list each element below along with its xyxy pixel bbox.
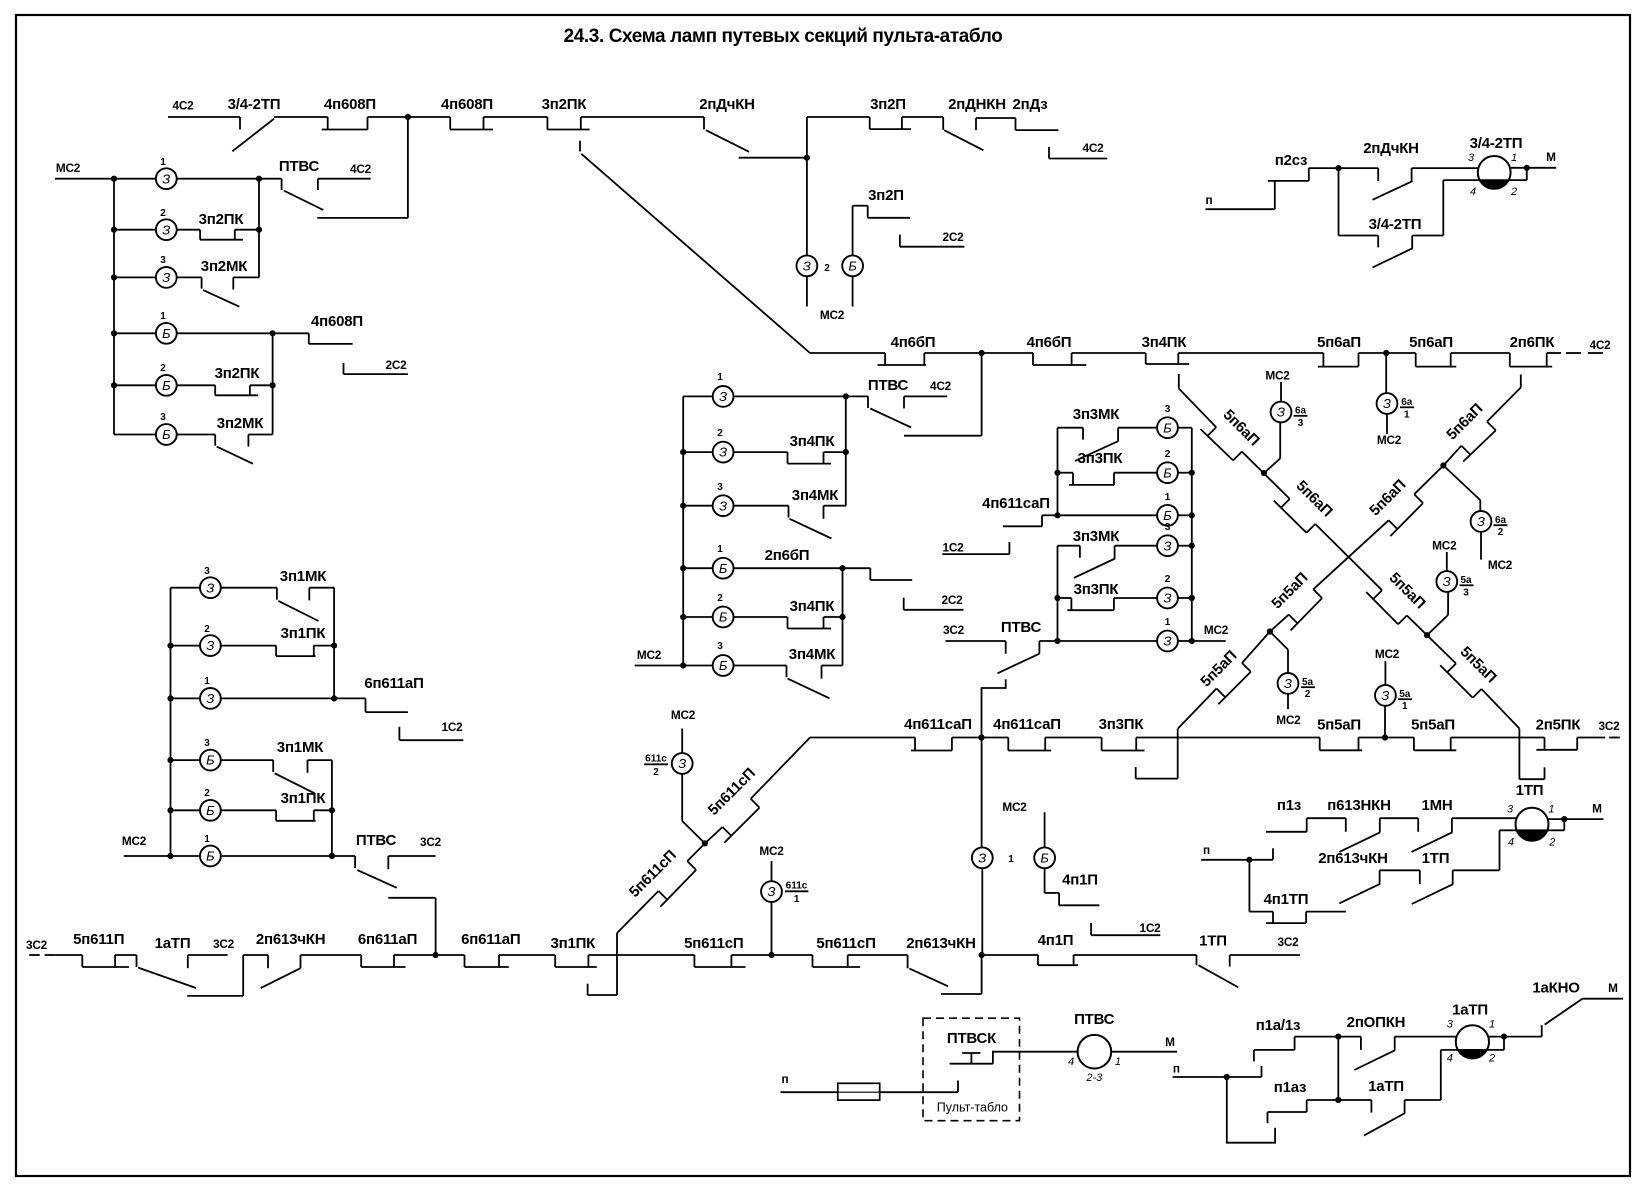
svg-text:3п3ПК: 3п3ПК — [1078, 450, 1124, 467]
node at 2пДчКН link — [804, 155, 810, 161]
svg-text:6а: 6а — [1401, 397, 1413, 408]
svg-text:ПТВС: ПТВС — [356, 832, 397, 849]
svg-text:Б: Б — [1040, 850, 1049, 865]
svg-text:МС2: МС2 — [1276, 713, 1301, 727]
node bottom rail 982 — [979, 952, 985, 958]
wire diagonal 5п611сП upper — [751, 738, 810, 799]
lamp 6а/2 with МС2 — [1443, 466, 1512, 573]
svg-text:п: п — [1173, 1062, 1180, 1076]
wire diag lower segs — [588, 843, 705, 995]
wire 1аТП lamp to 1аКНО — [1489, 1036, 1542, 1038]
wire 4п6бП rail left — [810, 352, 885, 354]
svg-text:З: З — [206, 638, 214, 653]
contact 4п611саП rail second (back) — [993, 716, 1101, 751]
lamp З1 3п3 — [1058, 617, 1192, 651]
svg-text:1C2: 1C2 — [942, 541, 964, 555]
contact 5п6аП rail second (back) — [1409, 334, 1510, 367]
wire п1а column — [1337, 1037, 1339, 1100]
lamp З 4п1 — [972, 847, 1014, 955]
lamp 5а/3 with МС2 — [1427, 539, 1474, 636]
wire diag2 bottom hook 3п3ПК — [1136, 729, 1178, 779]
node п 1ТП — [1246, 857, 1252, 863]
lamp 6а/3 with МС2 — [1264, 369, 1308, 474]
terminal 4C2 at ПТВС — [318, 162, 372, 190]
svg-text:3: 3 — [1468, 152, 1475, 164]
terminal п top-right — [1206, 193, 1275, 209]
label 2 between lamps — [824, 263, 830, 274]
svg-text:4C2: 4C2 — [1082, 141, 1104, 155]
svg-text:2: 2 — [204, 624, 210, 635]
svg-text:1: 1 — [1165, 492, 1171, 503]
contact 5п5аП rail (back) — [1317, 717, 1414, 751]
node bus З 3п1 dots — [331, 643, 337, 702]
lamp З3 3п1 — [171, 566, 277, 598]
wire left bus group1 — [113, 179, 115, 435]
node bus З 3п3 dots — [1054, 595, 1060, 644]
lamp З3 row3 — [114, 255, 202, 288]
svg-text:З: З — [1164, 634, 1172, 649]
title — [564, 26, 1003, 47]
svg-text:3п4ПК: 3п4ПК — [790, 598, 836, 615]
wire lamp to М right — [1511, 150, 1557, 168]
wire left bus 3п1 — [170, 588, 172, 856]
contact 3п1МК row4 (front) — [273, 739, 332, 793]
svg-text:Б: Б — [206, 803, 215, 818]
svg-text:2: 2 — [717, 593, 723, 604]
svg-text:МС2: МС2 — [1432, 539, 1457, 553]
svg-text:2: 2 — [160, 208, 166, 219]
svg-text:2п5ПК: 2п5ПК — [1536, 717, 1582, 734]
svg-text:МС2: МС2 — [1488, 558, 1513, 572]
wire ПТВС lower link to top rail — [317, 117, 408, 218]
svg-text:1: 1 — [1548, 804, 1554, 816]
contact 3/4-2ТП second (front) — [1339, 168, 1444, 267]
svg-text:2: 2 — [717, 428, 723, 439]
svg-text:З: З — [206, 580, 214, 595]
svg-text:Б: Б — [206, 849, 215, 864]
svg-text:4п608П: 4п608П — [441, 96, 493, 113]
wire п hook to п1аз — [1227, 1077, 1275, 1143]
lamp Б3 3п3 — [1157, 404, 1192, 438]
svg-text:3: 3 — [160, 255, 166, 266]
node 3п4 row2 right — [843, 449, 849, 455]
svg-text:Б: Б — [1163, 420, 1172, 435]
contact 5п611сП bottom second (back) — [813, 935, 908, 967]
svg-text:3п2П: 3п2П — [868, 187, 904, 204]
lamp 5а/1 with МС2 — [1375, 647, 1412, 738]
contact 3п2П (back) top right — [870, 96, 944, 129]
svg-text:п1з: п1з — [1277, 797, 1301, 814]
svg-text:3п2МК: 3п2МК — [217, 415, 264, 432]
svg-text:Б: Б — [1163, 465, 1172, 480]
svg-text:3п1ПК: 3п1ПК — [550, 935, 596, 952]
svg-text:2п613чКН: 2п613чКН — [906, 935, 976, 952]
svg-text:1C2: 1C2 — [441, 720, 463, 734]
svg-text:2C2: 2C2 — [385, 358, 407, 372]
svg-text:3C2: 3C2 — [943, 623, 965, 637]
lamp Б3 3п4 row6 — [683, 641, 786, 676]
svg-text:4п608П: 4п608П — [324, 96, 376, 113]
wire left bus Б 3п3 — [1057, 428, 1059, 516]
svg-text:3: 3 — [1463, 587, 1469, 598]
terminal 3C2 at ПТВС lower — [943, 623, 1006, 654]
svg-text:3/4-2ТП: 3/4-2ТП — [1470, 135, 1523, 152]
svg-text:4п1ТП: 4п1ТП — [1264, 891, 1309, 908]
svg-text:п2сз: п2сз — [1275, 152, 1307, 169]
wire 1аТП lamp lower terminal — [1441, 1037, 1504, 1100]
contact 2пОПКН (front) — [1338, 1014, 1456, 1070]
node 611с/1 riser — [768, 952, 774, 958]
svg-text:2: 2 — [1498, 527, 1504, 538]
svg-text:1: 1 — [204, 676, 210, 687]
svg-text:ПТВС: ПТВС — [279, 158, 320, 175]
svg-text:З: З — [162, 270, 170, 285]
contact ПТВСК (button) — [947, 1030, 1020, 1064]
contact 3п2П (step) middle — [853, 187, 910, 218]
terminal 3C2 bottom right — [1230, 935, 1300, 967]
wire right bus З 3п4 — [845, 396, 847, 505]
lamp Б3 3п1 — [171, 738, 274, 770]
contact 4п608П (back) on top rail — [322, 96, 451, 130]
contact 2пДз (back raised) — [976, 96, 1058, 130]
contact 5п6аП diag2 upper (back) — [1443, 400, 1496, 461]
svg-text:1аТП: 1аТП — [1452, 1002, 1488, 1019]
wire diagonal1 seg2 — [1242, 452, 1290, 499]
svg-text:4п6бП: 4п6бП — [1027, 334, 1072, 351]
svg-text:4п611саП: 4п611саП — [993, 716, 1061, 733]
contact 4п1ТП (back) — [1249, 860, 1345, 923]
lamp Б 4п1 — [1034, 812, 1055, 893]
contact 5п611П (back) — [73, 931, 136, 967]
svg-text:З: З — [719, 445, 727, 460]
node row2 right — [256, 227, 262, 233]
contact 1аТП bottom (front) — [137, 935, 197, 988]
contact 5п5аП diag1 second (back) — [1440, 643, 1500, 698]
svg-text:2: 2 — [1165, 449, 1171, 460]
lamp З2 row2 — [114, 208, 200, 240]
svg-text:Б: Б — [719, 561, 728, 576]
svg-text:4п608П: 4п608П — [311, 313, 363, 330]
svg-text:4C2: 4C2 — [1589, 338, 1611, 352]
node М 1ТП — [1561, 816, 1567, 822]
contact 2пДчКН right (front) — [1339, 140, 1478, 200]
node 3п4 row1 right — [843, 393, 849, 399]
contact п1з (back raised) — [1266, 797, 1346, 860]
contact 1МН (front) — [1412, 797, 1516, 852]
svg-text:Б: Б — [1163, 508, 1172, 523]
svg-text:З: З — [978, 850, 986, 865]
terminal 4C2 at ПТВС middle — [904, 379, 952, 408]
svg-text:1: 1 — [717, 372, 723, 383]
terminal 4C2 dashed right — [1566, 338, 1611, 353]
contact 6п611аП bottom second (back) — [461, 931, 555, 967]
contact 2п613чКН (front) — [256, 931, 361, 988]
contact 3п1ПК bottom (back) — [550, 935, 694, 967]
node diag1 lamp 6а/3 — [1261, 470, 1267, 476]
svg-text:3п2П: 3п2П — [870, 96, 906, 113]
lamp З2 3п4 row2 — [683, 428, 787, 463]
contact п1аз (back raised) — [1268, 1079, 1339, 1123]
contact 4п1П (step) — [1045, 872, 1100, 906]
terminal п ПТВСК — [781, 1072, 838, 1092]
contact 3п4ПК row5 (back) — [788, 598, 843, 629]
svg-text:4C2: 4C2 — [930, 379, 952, 393]
svg-text:4п611саП: 4п611саП — [982, 495, 1050, 512]
contact 3п2МК row6 (front) — [215, 415, 272, 464]
contact 4п608П row4 (step) — [273, 313, 363, 344]
svg-text:3п2МК: 3п2МК — [201, 258, 248, 275]
svg-text:2п613чКН: 2п613чКН — [256, 931, 326, 948]
terminal 1C2 stub right — [1091, 921, 1161, 935]
lamp Б1 3п3 — [1058, 492, 1192, 526]
svg-text:1: 1 — [1404, 409, 1410, 420]
svg-text:3п1ПК: 3п1ПК — [281, 790, 327, 807]
fuse in п lead — [838, 1083, 880, 1100]
svg-text:3: 3 — [160, 412, 166, 423]
svg-text:2C2: 2C2 — [941, 593, 963, 607]
node bus Б 3п1 dots — [329, 807, 335, 859]
contact 4п6бП (back) — [878, 334, 1033, 365]
svg-text:3п4МК: 3п4МК — [792, 487, 839, 504]
wire 4п611саП rail left — [810, 737, 915, 739]
wire bottom rail to 4п1П — [982, 954, 1038, 956]
lamp Б2 3п1 — [171, 788, 277, 821]
contact 2пДНКН (front) — [943, 96, 1006, 150]
lamp 611с/1 with МС2 — [759, 844, 808, 955]
svg-text:1ТП: 1ТП — [1516, 782, 1544, 799]
node row4 right — [270, 330, 276, 336]
svg-text:З: З — [1383, 396, 1391, 411]
svg-text:1: 1 — [794, 894, 800, 905]
terminal п 1аТП — [1173, 1062, 1262, 1078]
terminal МС2 below lamps — [820, 308, 845, 322]
node п1аз column bottom — [1335, 1097, 1341, 1103]
svg-text:п1аз: п1аз — [1274, 1079, 1307, 1096]
svg-text:ПТВСК: ПТВСК — [947, 1030, 997, 1047]
svg-text:2: 2 — [824, 263, 830, 274]
svg-text:МС2: МС2 — [671, 708, 696, 722]
contact 3п3ПК row З2 (back) — [1058, 581, 1157, 610]
wire riser x=807 — [807, 117, 870, 255]
contact 5п5аП diag2 second (back) — [1197, 647, 1251, 704]
svg-text:З: З — [1164, 591, 1172, 606]
svg-text:3: 3 — [204, 566, 210, 577]
svg-text:Б: Б — [162, 378, 171, 393]
wire ПТВС left lower link — [388, 898, 435, 955]
lamp З3 3п3 — [1157, 522, 1192, 556]
svg-text:З: З — [1284, 676, 1292, 691]
svg-text:Б: Б — [162, 326, 171, 341]
svg-text:1: 1 — [160, 311, 166, 322]
svg-text:3: 3 — [1165, 522, 1171, 533]
svg-text:Пульт-табло: Пульт-табло — [937, 1101, 1008, 1115]
contact 3п1МК row1 (front) — [277, 568, 334, 621]
svg-text:2пОПКН: 2пОПКН — [1347, 1014, 1406, 1031]
svg-text:611с: 611с — [786, 881, 808, 892]
contact 5п6аП diag2 lower (back) — [1366, 476, 1423, 536]
lamp 1аТП (indicator) — [1441, 1002, 1504, 1065]
svg-text:МС2: МС2 — [1002, 800, 1027, 814]
lamp Б3 row6 — [114, 412, 215, 445]
svg-text:М: М — [1592, 802, 1602, 816]
svg-text:1аКНО: 1аКНО — [1532, 980, 1580, 997]
contact 2п6ПК (back) — [1510, 334, 1561, 367]
svg-text:5п611П: 5п611П — [73, 931, 124, 948]
node right bus 3п3 dots — [1189, 470, 1195, 645]
svg-text:З: З — [162, 222, 170, 237]
svg-text:4C2: 4C2 — [350, 162, 372, 176]
svg-text:З: З — [1477, 514, 1485, 529]
svg-text:5а: 5а — [1399, 689, 1411, 700]
node diag2 lamp 5а/2 — [1267, 628, 1273, 634]
contact 2п613чКН (front) to lamp — [1318, 850, 1420, 903]
svg-text:24.3. Схема ламп путевых секци: 24.3. Схема ламп путевых секций пульта-а… — [564, 26, 1003, 47]
contact 5п611сП bottom (back) — [684, 935, 812, 967]
svg-text:4п6бП: 4п6бП — [891, 334, 936, 351]
node rail riser 982 — [978, 734, 984, 740]
svg-text:3п3МК: 3п3МК — [1073, 528, 1120, 545]
svg-text:2пДчКН: 2пДчКН — [699, 96, 755, 113]
contact 4п611саП (step into Б1) — [982, 495, 1057, 526]
wire diagonal1 seg3 through crossing — [1315, 524, 1382, 590]
svg-text:3п2ПК: 3п2ПК — [199, 211, 245, 228]
wire 2п613чКН lower link — [941, 955, 982, 994]
svg-text:МС2: МС2 — [759, 844, 784, 858]
svg-text:3п1МК: 3п1МК — [277, 739, 324, 756]
svg-text:МС2: МС2 — [1265, 369, 1290, 383]
svg-text:3п4ПК: 3п4ПК — [1142, 334, 1188, 351]
svg-text:МС2: МС2 — [56, 161, 81, 175]
lamp ПТВС (indicator) — [1068, 1011, 1121, 1084]
svg-text:З: З — [206, 691, 214, 706]
wire diag to node — [705, 827, 723, 843]
wire right bus 3п3 — [1191, 428, 1193, 641]
svg-text:3C2: 3C2 — [420, 835, 442, 849]
svg-text:МС2: МС2 — [122, 834, 147, 848]
wire right bus Б 3п1 — [331, 760, 333, 856]
svg-text:п: п — [1203, 843, 1210, 857]
svg-text:3п4МК: 3п4МК — [789, 646, 836, 663]
svg-text:1ТП: 1ТП — [1199, 933, 1227, 950]
svg-text:МС2: МС2 — [637, 648, 662, 662]
contact 4п611саП rail (back) — [904, 716, 1008, 751]
terminal 1C2 stub left — [399, 720, 463, 740]
wire 1аТП lower link — [187, 955, 268, 996]
svg-text:Б: Б — [206, 753, 215, 768]
svg-text:2-3: 2-3 — [1085, 1072, 1103, 1084]
lamp Б2 3п3 — [1157, 449, 1192, 483]
wire box to ПТВС lamp — [1020, 1051, 1078, 1053]
contact 3п3МК row Б3 (front) — [1058, 406, 1157, 461]
contact 5п5аП rail second (back) — [1411, 717, 1544, 751]
wire right bus Б 3п4 — [842, 568, 844, 665]
wire fuse to box — [880, 1081, 958, 1093]
svg-text:Б: Б — [719, 658, 728, 673]
contact 6п611аП (step) — [334, 675, 424, 712]
wire 2пДчКН lower link — [739, 157, 807, 159]
contact 5п6аП diag1 lower (back) — [1274, 477, 1336, 533]
svg-text:3C2: 3C2 — [1598, 719, 1620, 733]
contact 2п613чКН bottom second (front) — [906, 935, 976, 986]
svg-text:4: 4 — [1470, 186, 1476, 198]
svg-text:1: 1 — [1115, 1056, 1121, 1068]
svg-text:4C2: 4C2 — [172, 99, 194, 113]
svg-text:4п1П: 4п1П — [1038, 932, 1074, 949]
contact 3п2ПК row2 (back) — [199, 211, 259, 240]
svg-text:3п3МК: 3п3МК — [1073, 406, 1120, 423]
svg-text:2: 2 — [204, 788, 210, 799]
contact 5п611сП diag lower (back) — [626, 847, 696, 907]
node rail ПТВС riser — [979, 350, 985, 356]
svg-text:З: З — [1381, 688, 1389, 703]
contact 3п1ПК row2 (back) — [276, 625, 334, 656]
lamp Б (3п2 indication) — [842, 206, 863, 307]
wire diagonal2 seg3 — [1313, 466, 1443, 590]
terminal 2C2 middle stub — [900, 230, 965, 247]
svg-text:п613НКН: п613НКН — [1327, 797, 1391, 814]
svg-text:М: М — [1546, 150, 1556, 164]
node bus 3п4 dots — [680, 449, 686, 669]
terminal 4C2 top-left — [168, 99, 240, 118]
svg-text:3п3ПК: 3п3ПК — [1074, 581, 1120, 598]
node п1а column top — [1335, 1034, 1341, 1040]
svg-text:2: 2 — [160, 363, 166, 374]
terminal 4C2 upper right stub — [1049, 141, 1107, 159]
wire 1ТП lamp to М — [1548, 802, 1603, 820]
svg-text:1: 1 — [1165, 617, 1171, 628]
svg-text:2C2: 2C2 — [942, 230, 964, 244]
svg-text:ПТВС: ПТВС — [1001, 619, 1042, 636]
svg-text:5п611сП: 5п611сП — [816, 935, 875, 952]
contact ПТВС (changeover) top-left — [259, 158, 323, 210]
contact 1ТП bottom (front) — [1197, 933, 1239, 988]
terminal 1C2 stub — [942, 541, 1009, 555]
contact 1аКНО (front) — [1532, 980, 1623, 1037]
contact 6п611аП bottom (back) — [358, 931, 465, 967]
svg-text:МС2: МС2 — [1204, 623, 1229, 637]
svg-text:З: З — [1164, 538, 1172, 553]
terminal 2C2 left stub — [344, 358, 408, 374]
svg-text:З: З — [719, 498, 727, 513]
svg-text:М: М — [1608, 981, 1618, 995]
contact 3п4МК row6 (front) — [787, 646, 843, 698]
svg-text:2п6бП: 2п6бП — [765, 547, 810, 564]
svg-text:З: З — [1443, 574, 1451, 589]
svg-text:п: п — [1206, 193, 1213, 207]
svg-text:3: 3 — [1447, 1019, 1454, 1031]
wire 1ТП lamp lower terminal — [1500, 819, 1565, 870]
wire diagonal1 seg4 — [1407, 616, 1427, 636]
contact 1аТП second (front) — [1338, 1078, 1441, 1136]
svg-text:МС2: МС2 — [1375, 647, 1400, 661]
wire diagonal1 segs around contact — [1427, 635, 1519, 728]
node п2сз right — [1335, 165, 1341, 171]
wire ПТВС middle lower link — [904, 353, 982, 436]
terminal 2C2 stub 3п4 — [904, 593, 964, 610]
svg-text:1ТП: 1ТП — [1422, 850, 1450, 867]
svg-text:Б: Б — [162, 427, 171, 442]
contact 3п1ПК row5 (back) — [276, 790, 332, 821]
svg-text:6п611аП: 6п611аП — [358, 931, 417, 948]
lamp Б2 3п4 row5 — [683, 593, 787, 627]
wire diagonal2 seg2 — [1443, 446, 1461, 466]
svg-text:3C2: 3C2 — [1277, 935, 1299, 949]
svg-text:1МН: 1МН — [1421, 797, 1452, 814]
svg-text:1аТП: 1аТП — [1368, 1078, 1404, 1095]
svg-text:З: З — [678, 756, 686, 771]
contact 3п4ПК rail (back) — [1142, 334, 1324, 364]
contact 5п5аП diag2 (back) — [1268, 569, 1322, 630]
